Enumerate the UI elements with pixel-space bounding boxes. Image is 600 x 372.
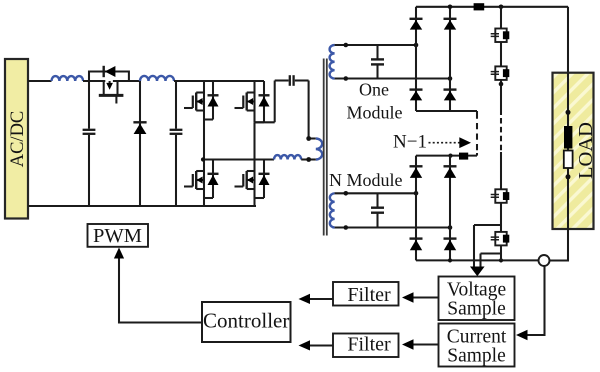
- node polarity dot: [344, 191, 349, 196]
- wire to N module top rail: [476, 153, 478, 156]
- arrow N-1 dotted: [429, 137, 472, 148]
- svg-text:Voltage: Voltage: [447, 280, 506, 301]
- wire Q3 source down through node-A rail: [253, 122, 255, 198]
- node junction leg1 N: [414, 191, 419, 196]
- transformer T1 secondary winding module N: [330, 193, 335, 227]
- wire module 1 secondary top: [335, 44, 416, 46]
- capacitor C5 module N filter: [371, 193, 384, 227]
- node A: [201, 157, 205, 161]
- wire voltage tap upper: [474, 225, 501, 267]
- arrow voltage sample to filter 1: [402, 292, 439, 302]
- arrow current sample to filter 2: [402, 339, 439, 349]
- Filter box 1: [333, 282, 399, 306]
- wire node A rail: [202, 158, 274, 160]
- diode D6: [444, 90, 457, 101]
- current sensor circle: [539, 255, 550, 266]
- node dot above dashed gap: [499, 82, 504, 87]
- arrow into voltage sample: [470, 267, 485, 277]
- svg-text:Sample: Sample: [447, 299, 506, 320]
- node junction leg2 bottom wire: [448, 76, 453, 81]
- svg-text:One: One: [359, 80, 389, 100]
- node junction leg2 N top rail: [448, 154, 452, 158]
- wire main top rail: [416, 6, 568, 8]
- wire dashed right leg continuation: [500, 118, 502, 152]
- wire load bottom: [550, 229, 569, 261]
- svg-text:N−1: N−1: [393, 132, 427, 153]
- wire N module top rail: [416, 155, 477, 157]
- inductor L2: [140, 76, 174, 81]
- wire dashed module continuation left: [476, 113, 478, 154]
- switch S4: [491, 232, 510, 246]
- MOSFET Q5 bottom-right of bridge: [235, 171, 255, 189]
- node junction right leg top rail: [499, 5, 504, 10]
- transformer T1 primary winding: [309, 139, 323, 160]
- wire voltage tap lower: [481, 254, 502, 267]
- node junction right leg bottom rail: [499, 258, 503, 262]
- wire node B to blocking capacitor: [255, 81, 275, 123]
- arrow filter 1 to controller: [299, 294, 334, 304]
- wire AC/DC top output: [28, 80, 52, 82]
- diode D8: [444, 166, 457, 178]
- wire module 1 rectifier leg 2: [449, 7, 451, 111]
- series connector block top rail: [474, 3, 485, 10]
- transformer T1 secondary winding module 1: [330, 45, 335, 79]
- wire sensor to current sample: [527, 266, 545, 335]
- diode D1 anti-parallel over Q1: [89, 66, 129, 81]
- inductor L3 resonant: [274, 155, 301, 159]
- wire L1 to node 1: [83, 80, 105, 82]
- wire top rail down to load: [567, 7, 569, 73]
- diode D2 freewheel: [133, 81, 146, 206]
- arrow filter 2 to controller: [299, 340, 334, 350]
- diode D7: [410, 166, 423, 178]
- svg-text:Filter: Filter: [347, 334, 391, 356]
- diode D9: [410, 239, 423, 251]
- arrow into PWM: [114, 248, 124, 259]
- diode D3: [410, 19, 423, 30]
- svg-text:N Module: N Module: [329, 170, 403, 190]
- svg-text:Current: Current: [447, 327, 507, 348]
- node primary bottom dot: [306, 157, 311, 162]
- wire AC/DC bottom to ground bus: [28, 205, 256, 207]
- wire right leg solid segment below dot: [500, 86, 502, 115]
- switch S3: [491, 189, 510, 203]
- Filter box 2: [333, 334, 399, 358]
- node junction leg2 bottom rail: [448, 258, 452, 262]
- node polarity dot: [344, 43, 349, 48]
- wire module 1 secondary bottom: [335, 77, 450, 79]
- inductor L1: [52, 76, 84, 81]
- arrow into current sample: [516, 330, 528, 340]
- node junction leg1 top wire: [414, 43, 419, 48]
- wire module 1 rectifier leg 1: [415, 7, 417, 111]
- diode body of Q2: [204, 81, 219, 120]
- node primary top dot: [306, 136, 311, 141]
- node polarity dot: [344, 225, 349, 230]
- Voltage Sample box: [439, 277, 515, 321]
- series connector block N module: [459, 153, 468, 160]
- MOSFET Q1 (buck switch): [99, 81, 140, 104]
- wire bottom output rail: [416, 259, 539, 261]
- transformer T1 core: [324, 59, 327, 236]
- capacitor C4 module 1 filter: [371, 45, 384, 79]
- wire right switch leg lower: [500, 152, 502, 260]
- MOSFET Q4 bottom-left of bridge: [184, 160, 204, 199]
- node polarity dot: [344, 76, 349, 81]
- svg-text:Module: Module: [347, 103, 403, 123]
- diode D10: [444, 239, 457, 251]
- node junction leg2 top rail: [448, 5, 453, 10]
- svg-text:PWM: PWM: [93, 225, 142, 247]
- wire module 1 bottom rail: [416, 111, 477, 113]
- PWM box: [88, 224, 149, 247]
- wire module N secondary bottom: [335, 226, 450, 228]
- svg-text:LOAD: LOAD: [575, 122, 597, 179]
- LOAD block: [553, 73, 598, 229]
- wire Q5 source to bus: [253, 198, 255, 206]
- capacitor C3 blocking: [275, 75, 309, 138]
- switch S1: [491, 29, 510, 43]
- wire Q2 source to node A: [203, 120, 205, 160]
- switch S2: [491, 66, 510, 80]
- wire module N rectifier leg 2: [449, 156, 451, 261]
- capacitor C2: [170, 81, 183, 206]
- Controller box: [202, 302, 291, 342]
- Current Sample box: [439, 324, 515, 367]
- capacitor C1: [83, 81, 96, 206]
- wire module N secondary top: [335, 192, 416, 194]
- diode D5: [410, 90, 423, 101]
- wire controller to PWM: [119, 258, 202, 323]
- MOSFET Q2 top-left of bridge: [184, 81, 204, 120]
- svg-text:Controller: Controller: [203, 309, 289, 333]
- diode body of Q3: [255, 81, 270, 122]
- wire right switch leg upper: [500, 7, 502, 84]
- svg-text:Filter: Filter: [347, 284, 391, 306]
- wire L3 to primary bottom dot: [301, 158, 309, 160]
- svg-text:Sample: Sample: [447, 346, 506, 367]
- wire module N rectifier leg 1: [415, 156, 417, 261]
- diode body of Q5: [255, 160, 270, 199]
- wire Q4 source to bus: [203, 198, 205, 206]
- AC/DC converter block: [5, 59, 28, 219]
- MOSFET Q3 top-right of bridge: [235, 81, 255, 122]
- wire bridge top rail: [174, 80, 264, 82]
- svg-text:AC/DC: AC/DC: [8, 111, 28, 168]
- diode D4: [444, 19, 457, 30]
- diode body of Q4: [204, 160, 219, 199]
- text One Module: [347, 80, 403, 123]
- node junction leg2 N: [448, 225, 453, 230]
